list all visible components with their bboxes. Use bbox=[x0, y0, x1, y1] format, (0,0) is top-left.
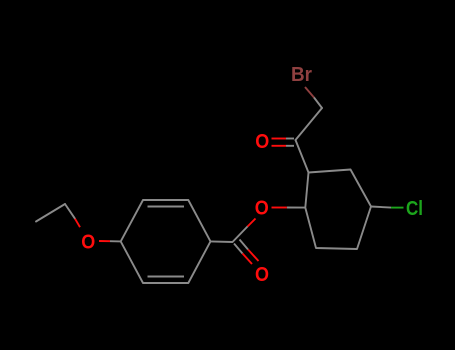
CH2-O1 bond gray half bbox=[65, 204, 75, 219]
ethyl CH3-CH2 bond bbox=[36, 204, 65, 222]
right benzene ring bbox=[305, 170, 371, 250]
CH2 to Br bond gray half bbox=[314, 98, 322, 109]
ketone C2 to ring TL2 bond bbox=[296, 140, 309, 173]
svg-text:O: O bbox=[255, 198, 269, 220]
C1=O3 double bond line a gray half bbox=[234, 244, 243, 254]
CH2-O1 bond red half bbox=[75, 219, 80, 228]
ketone C2=O4 double bond line a gray half bbox=[286, 138, 294, 140]
ring R2 to Cl bond green half bbox=[391, 207, 404, 209]
svg-text:Cl: Cl bbox=[406, 198, 423, 220]
CH2 to Br bond brown half bbox=[305, 87, 314, 98]
svg-text:O: O bbox=[81, 231, 95, 253]
C1-O2 ester bond gray half bbox=[233, 227, 248, 243]
ketone C2=O4 double bond line b gray half bbox=[286, 145, 294, 147]
svg-text:O: O bbox=[255, 131, 269, 153]
left benzene ring bbox=[121, 200, 211, 283]
ketone C2=O4 double bond line b red half bbox=[272, 145, 287, 147]
ring R2 to Cl bond gray half bbox=[371, 207, 391, 208]
C1=O3 double bond line b red half bbox=[248, 250, 259, 262]
CH2 to ketone C2 bond bbox=[296, 108, 323, 140]
C1-O2 ester bond red half bbox=[248, 219, 256, 227]
left ring bottom inner double line bbox=[148, 276, 185, 278]
O2-right ring bond gray half bbox=[287, 207, 305, 209]
C1=O3 double bond line a red half bbox=[243, 254, 253, 265]
ring R to carboxyl C bond bbox=[211, 240, 233, 243]
O1-ring bond gray half bbox=[110, 240, 121, 242]
C1=O3 double bond line b gray half bbox=[240, 240, 249, 250]
left ring top inner double line bbox=[148, 206, 185, 208]
ketone C2=O4 double bond line a red half bbox=[272, 138, 287, 140]
O1-ring bond red half bbox=[99, 240, 110, 242]
svg-text:Br: Br bbox=[291, 64, 312, 86]
O2-right ring bond red half bbox=[272, 207, 287, 209]
svg-text:O: O bbox=[255, 264, 269, 286]
